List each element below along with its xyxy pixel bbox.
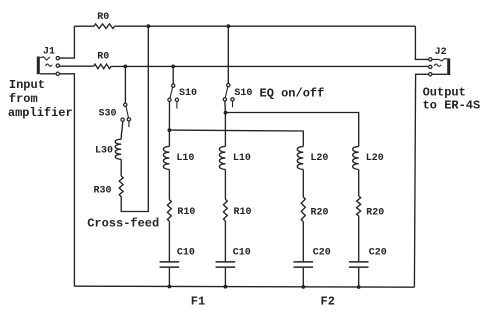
svg-text:R0: R0 xyxy=(97,52,109,63)
svg-text:Input: Input xyxy=(9,78,45,92)
svg-text:R0: R0 xyxy=(97,12,109,23)
svg-text:J1: J1 xyxy=(43,47,55,58)
svg-text:R30: R30 xyxy=(94,186,112,197)
svg-text:C20: C20 xyxy=(369,247,387,258)
svg-text:EQ on/off: EQ on/off xyxy=(260,86,325,100)
svg-text:S10: S10 xyxy=(234,88,252,99)
svg-text:C20: C20 xyxy=(313,247,331,258)
svg-text:L10: L10 xyxy=(233,153,251,164)
svg-text:R10: R10 xyxy=(234,207,252,218)
svg-text:R20: R20 xyxy=(311,207,329,218)
svg-text:L10: L10 xyxy=(176,153,194,164)
svg-text:C10: C10 xyxy=(233,248,251,259)
svg-text:S30: S30 xyxy=(99,109,117,120)
svg-text:R10: R10 xyxy=(177,207,195,218)
svg-text:R20: R20 xyxy=(366,207,384,218)
svg-text:L20: L20 xyxy=(366,153,384,164)
svg-text:S10: S10 xyxy=(179,88,197,99)
svg-text:J2: J2 xyxy=(435,47,447,58)
svg-text:C10: C10 xyxy=(177,247,195,258)
svg-text:Cross-feed: Cross-feed xyxy=(87,216,159,230)
svg-text:amplifier: amplifier xyxy=(8,106,73,120)
svg-text:F1: F1 xyxy=(191,295,205,309)
svg-text:to ER-4S: to ER-4S xyxy=(423,99,481,113)
svg-text:from: from xyxy=(9,92,38,106)
svg-text:L30: L30 xyxy=(95,145,113,156)
svg-text:F2: F2 xyxy=(321,295,335,309)
svg-text:L20: L20 xyxy=(310,153,328,164)
